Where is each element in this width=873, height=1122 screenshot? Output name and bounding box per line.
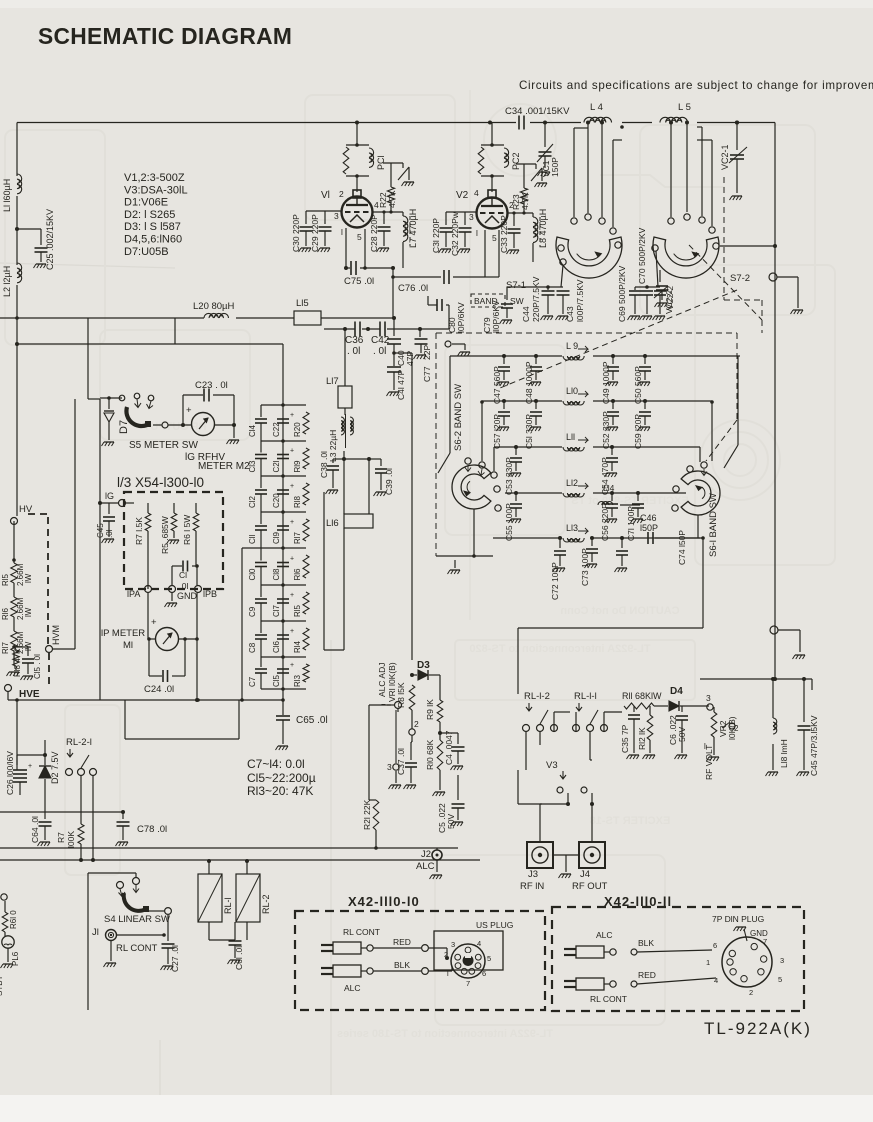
resistor R15 <box>303 592 309 614</box>
capacitor C11 <box>260 512 262 524</box>
inductor L15 box <box>294 311 321 325</box>
svg-text:L8 470µH: L8 470µH <box>538 209 548 248</box>
svg-text:RF OUTPUT: RF OUTPUT <box>143 421 206 433</box>
capacitor C1 <box>171 566 173 585</box>
svg-text:+: + <box>290 519 294 526</box>
wafer S6-1 <box>681 471 720 515</box>
svg-text:lPB: lPB <box>203 589 217 599</box>
capacitor C31 <box>445 212 447 225</box>
svg-text:Ll4: Ll4 <box>603 483 615 493</box>
capacitor C50 <box>643 354 647 358</box>
svg-text:S4 LlNEAR SW: S4 LlNEAR SW <box>104 914 170 925</box>
inductor L4 <box>584 117 612 122</box>
inductor L12 <box>505 492 562 494</box>
wire x75 <box>74 399 76 649</box>
svg-text:+: + <box>290 592 294 599</box>
tube V1 <box>342 197 373 228</box>
resistor R22 <box>387 187 394 203</box>
capacitor VC1 <box>544 123 546 148</box>
svg-text:C45: C45 <box>96 523 105 538</box>
svg-text:RED: RED <box>393 937 411 947</box>
svg-text:RED: RED <box>638 970 656 980</box>
capacitor C41 <box>387 366 401 368</box>
switch S4 frame <box>87 873 89 1010</box>
svg-text:3: 3 <box>780 956 784 965</box>
inductor L16 box <box>343 459 345 514</box>
inductor L7 <box>402 212 404 216</box>
svg-text:C53 330P: C53 330P <box>504 457 514 495</box>
inductor L10 <box>482 400 562 402</box>
capacitor C52 <box>611 399 615 403</box>
switch S5 wiper <box>126 407 147 426</box>
svg-text:7: 7 <box>763 937 767 946</box>
capacitor C70 <box>641 290 653 292</box>
svg-text:C47 560P: C47 560P <box>492 366 502 404</box>
svg-text:lW: lW <box>24 573 33 583</box>
svg-text:C49 1000P: C49 1000P <box>601 361 611 404</box>
svg-text:V3:DSA-30lL: V3:DSA-30lL <box>124 184 188 196</box>
capacitor C9 <box>260 585 262 597</box>
resistor R20 <box>303 412 309 434</box>
svg-text:J4: J4 <box>580 869 590 880</box>
capacitor C16 <box>277 634 289 636</box>
capacitor C5 <box>457 790 459 800</box>
capacitor C73 <box>590 536 594 540</box>
capacitor C79 <box>501 303 513 305</box>
svg-text:Rl5: Rl5 <box>1 573 10 586</box>
svg-text:R6 l 5W: R6 l 5W <box>182 515 192 545</box>
svg-text:5: 5 <box>487 954 491 963</box>
svg-text:Rl7: Rl7 <box>293 531 302 544</box>
svg-text:C48 1000P: C48 1000P <box>524 361 534 404</box>
svg-text:Cl0: Cl0 <box>248 568 257 581</box>
svg-text:Cl5 . 0l: Cl5 . 0l <box>33 654 42 679</box>
inductor L2 <box>17 263 22 283</box>
svg-text:+: + <box>186 405 192 416</box>
svg-text:TL-922A interconnection to TS-: TL-922A interconnection to TS-820 <box>469 643 650 655</box>
capacitor C54 <box>610 445 614 449</box>
svg-text:+: + <box>290 412 294 419</box>
svg-text:D3: l S l587: D3: l S l587 <box>124 221 181 233</box>
HVE <box>15 666 17 670</box>
svg-text:BLK: BLK <box>394 960 410 970</box>
svg-text:ALC: ALC <box>416 861 435 872</box>
wire x100 vertical <box>99 399 101 700</box>
svg-text:C26 l00/l6V: C26 l00/l6V <box>5 751 15 795</box>
svg-text:Ll5: Ll5 <box>296 298 309 309</box>
plug RL CONT b2 <box>564 980 576 982</box>
wire x412 lower <box>411 362 413 660</box>
contact to ground right <box>770 626 778 634</box>
wire ladder row 3 <box>261 511 306 513</box>
capacitor C4 <box>440 732 458 734</box>
svg-text:C24 .0l: C24 .0l <box>144 684 174 695</box>
capacitor C61 <box>234 922 236 938</box>
svg-text:Cl7: Cl7 <box>272 604 281 617</box>
capacitor C26 <box>16 755 18 765</box>
capacitor C30 <box>305 211 307 224</box>
capacitor C57 <box>502 399 506 403</box>
svg-text:4: 4 <box>477 939 481 948</box>
svg-text:l50P: l50P <box>640 523 658 533</box>
jack J3 <box>527 842 553 868</box>
svg-text:S7-2: S7-2 <box>730 273 750 284</box>
wire plate line VC2-1 <box>735 121 739 125</box>
svg-text:Ll l60µH: Ll l60µH <box>2 179 12 212</box>
svg-text:GND: GND <box>177 591 198 601</box>
svg-text:STBY: STBY <box>0 974 4 996</box>
wire long y848 <box>0 847 458 849</box>
wire band sw contact <box>445 341 451 347</box>
svg-text:L7 470µH: L7 470µH <box>408 209 418 248</box>
svg-text:Cll: Cll <box>248 534 257 544</box>
wire V1 cathode <box>345 228 347 268</box>
svg-text:TL-922A(K): TL-922A(K) <box>704 1019 812 1038</box>
tube V2 <box>477 198 508 229</box>
grid arrow to ground 2 <box>535 164 537 169</box>
wire x88 drop <box>87 318 89 399</box>
capacitor VC2-2 <box>659 270 661 282</box>
capacitor C38 <box>343 451 345 459</box>
capacitor C59 <box>643 399 647 403</box>
svg-text:+: + <box>290 628 294 635</box>
capacitor C25 <box>15 227 19 231</box>
svg-text:RL-l-2: RL-l-2 <box>524 691 550 702</box>
svg-text:4.7K: 4.7K <box>387 190 397 208</box>
svg-text:C37 .0l: C37 .0l <box>396 748 406 775</box>
capacitor C12 <box>260 476 262 488</box>
wire ladder row 6 <box>261 620 306 622</box>
svg-text:C36: C36 <box>345 335 364 346</box>
svg-text:22P: 22P <box>422 345 432 360</box>
svg-text:Rl3~20: 47K: Rl3~20: 47K <box>247 784 313 798</box>
svg-text:RL-2-l: RL-2-l <box>66 737 92 748</box>
capacitor C24 <box>148 639 150 676</box>
svg-text:Cl3: Cl3 <box>248 460 257 473</box>
svg-text:Rl3: Rl3 <box>293 674 302 687</box>
inductor L8 <box>532 213 534 217</box>
svg-text:C23 . 0l: C23 . 0l <box>195 380 228 391</box>
svg-text:C65 .0l: C65 .0l <box>296 715 328 726</box>
wire ladder row 0 <box>261 404 306 406</box>
S6-2 rotor contacts <box>465 458 471 464</box>
wire ladder row 4 <box>261 547 306 549</box>
wire VR1 left <box>369 704 391 706</box>
capacitor C65 <box>282 712 284 715</box>
svg-text:Ll6: Ll6 <box>326 518 339 529</box>
capacitor C49 <box>611 354 615 358</box>
wire top HV bus <box>17 122 516 124</box>
svg-text:Rl4: Rl4 <box>293 640 302 653</box>
svg-text:4: 4 <box>714 976 718 985</box>
svg-text:L 9: L 9 <box>566 341 578 351</box>
svg-text:PC2: PC2 <box>511 152 521 170</box>
svg-text:C29 220P: C29 220P <box>310 214 320 252</box>
svg-text:C45 47P/3.l5KV: C45 47P/3.l5KV <box>809 715 819 776</box>
svg-text:lW: lW <box>24 607 33 617</box>
diode D7 <box>100 397 122 399</box>
resistor R23 <box>520 188 527 204</box>
svg-text:V3: V3 <box>546 760 558 771</box>
svg-text:. 0l: . 0l <box>373 346 386 357</box>
wire L4 taps <box>586 121 590 125</box>
svg-text:RL-l-l: RL-l-l <box>574 691 597 702</box>
capacitor C45 <box>803 679 805 722</box>
wire ladder row 1 <box>261 440 306 442</box>
svg-text:lP METER: lP METER <box>101 628 145 639</box>
svg-text:C32 220Pw: C32 220Pw <box>450 211 460 256</box>
inductor L17 box <box>338 386 352 408</box>
dashed module box <box>124 492 223 589</box>
capacitor C64 <box>44 815 46 819</box>
parasitic choke PC1 <box>346 144 369 146</box>
svg-text:2: 2 <box>339 189 344 199</box>
capacitor C76 <box>393 276 441 278</box>
capacitor C14 <box>260 405 262 417</box>
svg-text:C55 100P: C55 100P <box>504 503 514 541</box>
resistor R14 <box>303 628 309 650</box>
svg-text:C28 220P: C28 220P <box>369 214 379 252</box>
svg-text:Rl6: Rl6 <box>1 607 10 620</box>
svg-text:l0P/6KV: l0P/6KV <box>456 302 466 333</box>
capacitor C28 <box>383 212 385 224</box>
capacitor C69 <box>634 287 636 290</box>
wire S7-2 output <box>720 245 775 247</box>
svg-text:Rl8: Rl8 <box>293 495 302 508</box>
capacitor C19 <box>277 525 289 527</box>
svg-text:C52 330P: C52 330P <box>601 411 611 449</box>
svg-text:RF VOLT: RF VOLT <box>704 745 714 780</box>
svg-text:S6-2 BAND SW: S6-2 BAND SW <box>453 384 464 451</box>
svg-text:Ll7: Ll7 <box>326 376 339 387</box>
svg-text:l: l <box>341 227 343 237</box>
capacitor VC2-2b <box>654 290 666 292</box>
svg-text:Ll8 lmH: Ll8 lmH <box>779 739 789 768</box>
capacitor C78 <box>122 812 124 819</box>
resistor R7c <box>78 824 84 844</box>
resistor R17 <box>11 631 17 651</box>
svg-text:C8: C8 <box>248 642 257 653</box>
transformer L3 <box>341 417 344 435</box>
svg-text:C42: C42 <box>371 335 390 346</box>
plug ALC b1 <box>321 967 333 969</box>
svg-text:.0l: .0l <box>105 529 114 538</box>
band switch wafer S7-2 <box>653 237 719 278</box>
capacitor C23 <box>182 395 184 425</box>
switch S5 contacts <box>119 395 125 401</box>
svg-text:Rl6: Rl6 <box>293 568 302 581</box>
svg-text:R6l 0: R6l 0 <box>9 910 18 929</box>
svg-text:C2l: C2l <box>272 460 281 472</box>
svg-text:R7: R7 <box>56 832 66 843</box>
capacitor C47 <box>502 354 506 358</box>
module box X42-1110-11 <box>552 907 804 1011</box>
svg-text:C25 .002/15KV: C25 .002/15KV <box>45 209 55 270</box>
svg-text:Lll: Lll <box>566 432 575 442</box>
resistor R9 <box>439 675 441 700</box>
inductor L13 <box>493 537 562 539</box>
svg-text:C7~l4: 0.0l: C7~l4: 0.0l <box>247 757 305 771</box>
svg-text:5: 5 <box>492 233 497 243</box>
svg-text:C38 .0l: C38 .0l <box>319 451 329 478</box>
svg-text:METER M2: METER M2 <box>198 461 250 472</box>
inductor L5 <box>660 117 688 122</box>
svg-text:C6l .0l: C6l .0l <box>234 946 244 970</box>
svg-text:l: l <box>476 228 478 238</box>
svg-text:R7 l.5K: R7 l.5K <box>134 517 144 545</box>
svg-text:+: + <box>290 662 294 669</box>
capacitor C17 <box>277 598 289 600</box>
wire band out <box>680 537 703 539</box>
wire L16 down <box>343 528 345 650</box>
svg-text:7P DlN PLUG: 7P DlN PLUG <box>712 914 764 924</box>
svg-text:3: 3 <box>387 762 392 772</box>
svg-text:D2: l S265: D2: l S265 <box>124 209 175 221</box>
svg-text:US PLUG: US PLUG <box>476 920 513 930</box>
svg-text:3: 3 <box>469 212 474 222</box>
capacitor C29 <box>324 211 326 224</box>
svg-text:+: + <box>151 617 157 628</box>
wire mid vertical <box>344 329 346 386</box>
svg-text:C4 .0047: C4 .0047 <box>444 730 454 765</box>
contacts 1PA GND 1PB <box>145 586 152 593</box>
svg-text:S7-1: S7-1 <box>506 280 526 291</box>
capacitor C6 <box>681 706 683 712</box>
wire to main vertical <box>394 352 412 354</box>
svg-text:3: 3 <box>706 693 711 703</box>
svg-text:C78 .0l: C78 .0l <box>137 824 167 835</box>
svg-text:L2 l2µH: L2 l2µH <box>2 266 12 297</box>
parasitic choke PC2 <box>481 144 504 146</box>
dashed S7 boundary <box>436 332 737 334</box>
svg-text:L20 80µH: L20 80µH <box>193 301 235 312</box>
svg-text:Rll 68KlW: Rll 68KlW <box>622 691 662 701</box>
svg-text:D1:V06E: D1:V06E <box>124 197 168 209</box>
wire V2 grid left <box>446 211 476 213</box>
capacitor C43 <box>557 290 570 292</box>
svg-text:R2l 22K: R2l 22K <box>362 799 372 830</box>
capacitor C77 <box>419 329 421 337</box>
svg-text:l00K: l00K <box>66 831 76 848</box>
resistor R10 <box>437 740 443 770</box>
S6-1 rotor contacts <box>701 462 707 468</box>
svg-text:Rl9: Rl9 <box>293 460 302 473</box>
svg-text:RF OUT: RF OUT <box>572 881 608 892</box>
S6-2 row drops <box>449 356 451 453</box>
svg-text:R20: R20 <box>293 422 302 437</box>
svg-text:VC2-1: VC2-1 <box>720 144 730 170</box>
wire long y860 <box>0 859 480 861</box>
wire y344 bus <box>174 318 176 344</box>
svg-text:220P/7.5KV: 220P/7.5KV <box>531 276 541 322</box>
svg-text:Cl: Cl <box>179 570 187 580</box>
svg-text:C77: C77 <box>422 366 432 382</box>
svg-text:Cl4: Cl4 <box>248 424 257 437</box>
svg-text:C75 .0l: C75 .0l <box>344 276 374 287</box>
wire ladder row 7 <box>261 656 306 658</box>
svg-text:C7l 100P: C7l 100P <box>626 506 636 541</box>
svg-text:Rl2 lK: Rl2 lK <box>637 727 647 750</box>
svg-text:C57 l20P: C57 l20P <box>492 414 502 449</box>
wire HVE bus <box>7 692 9 700</box>
wire V1 grid left <box>306 210 341 212</box>
capacitor C71 <box>636 491 640 495</box>
resistor R16 <box>303 555 309 578</box>
jack J4 <box>579 842 605 868</box>
inductor L 9 <box>450 355 562 357</box>
capacitor C56 <box>610 491 614 495</box>
svg-text:6: 6 <box>482 969 486 978</box>
svg-text:Ll0: Ll0 <box>566 386 578 396</box>
wire y812 <box>0 811 123 813</box>
wire ladder row 5 <box>261 584 306 586</box>
S5 output <box>162 422 168 428</box>
resistor R18 <box>303 483 309 505</box>
wire to jacks <box>539 804 541 842</box>
svg-text:5: 5 <box>357 232 362 242</box>
svg-text:l00P/7.5KV: l00P/7.5KV <box>575 279 585 322</box>
svg-text:D4: D4 <box>670 686 683 697</box>
capacitor C20 <box>277 489 289 491</box>
wire L5 taps <box>669 121 673 125</box>
svg-text:HVE: HVE <box>19 689 40 700</box>
capacitor C21 <box>277 454 289 456</box>
US PLUG socket <box>434 931 503 970</box>
svg-text:+: + <box>290 483 294 490</box>
capacitor C44 <box>547 287 549 290</box>
svg-text:C33 220P: C33 220P <box>499 215 509 253</box>
svg-text:C56 220P: C56 220P <box>600 503 610 541</box>
S6-1 stem <box>697 515 699 538</box>
capacitor C15b <box>14 646 28 648</box>
svg-text:X42-lll0-ll: X42-lll0-ll <box>604 894 672 909</box>
svg-text:D7:U05B: D7:U05B <box>124 246 169 258</box>
resistor R6 <box>195 503 197 513</box>
dashed HV box <box>28 513 48 515</box>
svg-text:RL CONT: RL CONT <box>590 994 627 1004</box>
svg-text:C5l 330P: C5l 330P <box>524 414 534 449</box>
wire y679 right <box>700 678 812 680</box>
svg-text:l/3 X54-l300-l0: l/3 X54-l300-l0 <box>117 475 204 490</box>
capacitor C10 <box>260 548 262 561</box>
wire top bus L4-L5 links <box>622 122 652 124</box>
svg-text:C4l 47P: C4l 47P <box>396 369 406 400</box>
resistor R21 <box>373 800 379 830</box>
wafer S6-2 <box>452 465 491 509</box>
svg-text:C44: C44 <box>521 306 531 322</box>
relay coil RL-2 <box>236 874 260 922</box>
svg-text:C46: C46 <box>640 513 657 523</box>
capacitor C80 link <box>448 305 450 329</box>
svg-text:Cl6: Cl6 <box>272 640 281 653</box>
inductor L1 <box>17 174 22 194</box>
svg-text:C59 l20P: C59 l20P <box>633 414 643 449</box>
svg-text:. 0l: . 0l <box>347 346 360 357</box>
svg-text:lPA: lPA <box>127 589 140 599</box>
capacitor C53 <box>514 445 518 449</box>
capacitor C34 <box>518 116 520 130</box>
svg-text:7: 7 <box>466 979 470 988</box>
svg-text:SCHEMATIC DIAGRAM: SCHEMATIC DIAGRAM <box>38 23 292 49</box>
capacitor C37 <box>410 742 412 760</box>
svg-text:50V: 50V <box>446 814 456 829</box>
svg-text:L3 22µH: L3 22µH <box>328 430 338 462</box>
contact to ground right upper <box>769 273 777 281</box>
capacitor C18 <box>277 562 289 564</box>
resistor R17 <box>303 519 309 541</box>
resistor R19 <box>303 448 309 469</box>
svg-text:C76 .0l: C76 .0l <box>398 283 428 294</box>
